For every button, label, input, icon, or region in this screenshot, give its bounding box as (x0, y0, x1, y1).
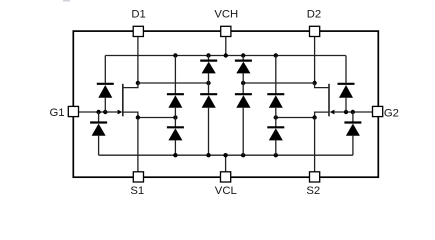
svg-text:D2: D2 (307, 9, 321, 21)
terminal pad S2 (310, 172, 320, 182)
node: VCH rail dots (173, 53, 278, 57)
wire: right MOSFET drain jog (315, 83, 329, 88)
wire: VCL inner rail (99, 154, 353, 156)
wire: VCL riser (225, 155, 227, 172)
wire: G2 gate wire (334, 111, 373, 113)
svg-text:S2: S2 (306, 185, 320, 197)
transistor Q2 gate arrow (330, 110, 335, 115)
node: D1 junction dot (136, 81, 140, 85)
diode DG2H G2-to-VCH (338, 56, 355, 113)
package outline frame (73, 31, 378, 177)
terminal pad VCL (221, 172, 231, 182)
diode DG1H G1-to-VCH (97, 56, 114, 113)
wire: VCH inner rail (105, 55, 345, 57)
wire: G1 gate wire (78, 111, 118, 113)
node: dot source rail to column L1 (173, 115, 177, 119)
transistor Q1 gate arrow (118, 110, 123, 115)
wire: D1 riser (137, 36, 139, 83)
wire: left MOSFET source rail (123, 112, 176, 117)
diode column R1 upper (S2-to-VCH) (267, 56, 284, 118)
diode column L1 upper (S1-to-VCH) (167, 56, 184, 118)
svg-text:D1: D1 (131, 9, 145, 21)
diode column L2 upper (D1-to-VCH) (200, 56, 217, 84)
wire: VCH riser (225, 36, 227, 55)
wire: right MOSFET source rail (276, 112, 329, 117)
svg-text:S1: S1 (130, 185, 144, 197)
node: G2 dot at lower diode (351, 110, 355, 114)
node: dot D2 rail to diode column R2 (241, 81, 245, 85)
stray cropped text smudge top edge (63, 0, 70, 2)
svg-text:VCL: VCL (215, 185, 237, 197)
wire: S1 riser (137, 118, 139, 172)
node: G1 dot at upper diode (103, 110, 107, 114)
svg-text:VCH: VCH (214, 9, 238, 21)
terminal pad D1 (133, 26, 143, 36)
diode column L1 lower (VCL-to-S1) (167, 118, 184, 156)
node: S2 junction dot (312, 115, 316, 119)
diode column R1 lower (VCL-to-S2) (267, 118, 284, 156)
terminal pad VCH (221, 26, 231, 36)
diode DG1L VCL-to-G1 (90, 112, 107, 155)
wire: D2 riser (314, 36, 316, 83)
svg-text:G1: G1 (50, 107, 65, 119)
wire: left MOSFET drain jog (123, 83, 138, 88)
diode column R2 lower (VCL-to-D2) (235, 83, 252, 155)
diode column L2 lower (VCL-to-D1) (200, 83, 217, 155)
wire: D1 horizontal rail (138, 82, 209, 84)
diode DG2L VCL-to-G2 (344, 112, 361, 155)
node: dot D1 rail to diode column L2 (206, 81, 210, 85)
transistor Q2 channel bar (328, 84, 330, 117)
terminal pad G1 (68, 106, 78, 116)
node: dot source rail to column R1 (274, 115, 278, 119)
terminal pad D2 (310, 26, 320, 36)
wire: D2 horizontal rail (243, 82, 315, 84)
node: G2 dot at upper diode (344, 110, 348, 114)
terminal pad G2 (373, 106, 383, 116)
terminal pad S1 (133, 172, 143, 182)
node: G1 dot at lower diode (96, 110, 100, 114)
node: S1 junction dot (136, 115, 140, 119)
node: D2 junction dot (312, 81, 316, 85)
wire: S2 riser (314, 118, 316, 172)
diode column R2 upper (D2-to-VCH) (235, 56, 252, 84)
transistor Q1 channel bar (122, 84, 124, 117)
svg-text:G2: G2 (384, 107, 399, 119)
node: VCL rail dots (173, 153, 278, 157)
